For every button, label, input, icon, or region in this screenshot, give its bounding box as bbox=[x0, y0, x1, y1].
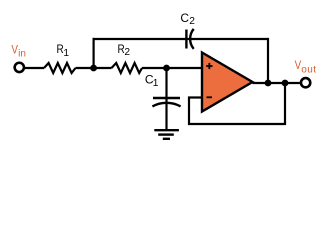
wire drop from top rail to output rail bbox=[267, 38, 269, 83]
wire riser from node A up to top rail bbox=[92, 38, 94, 68]
wire feedback loop to inverting input bbox=[189, 83, 285, 124]
junction output/feedback bbox=[282, 80, 289, 87]
svg-text:C: C bbox=[180, 11, 189, 25]
resistor R2 bbox=[112, 42, 143, 73]
junction node A (R1/R2/C2) bbox=[90, 65, 97, 72]
svg-text:in: in bbox=[18, 49, 26, 60]
svg-text:out: out bbox=[301, 64, 316, 75]
wire top rail left of C2 bbox=[93, 38, 269, 40]
label Vout bbox=[295, 58, 317, 75]
svg-text:V: V bbox=[295, 58, 302, 72]
wire input rail Vin to op-amp bbox=[25, 67, 201, 69]
wire output rail bbox=[253, 82, 300, 84]
svg-text:1: 1 bbox=[153, 78, 159, 89]
svg-text:1: 1 bbox=[63, 48, 69, 59]
capacitor C2 bbox=[180, 11, 195, 49]
svg-text:2: 2 bbox=[189, 16, 195, 27]
node Vin terminal bbox=[15, 63, 24, 72]
svg-text:2: 2 bbox=[124, 47, 130, 58]
ground bbox=[154, 130, 179, 139]
wire node B down to C1 bbox=[165, 68, 167, 130]
resistor R1 bbox=[44, 42, 76, 73]
junction output/top-rail bbox=[265, 80, 272, 87]
capacitor C1 bbox=[145, 72, 181, 106]
node Vout terminal bbox=[301, 78, 310, 87]
junction node B (R2/C1/op-amp +) bbox=[163, 65, 170, 72]
label Vin bbox=[11, 43, 25, 60]
svg-text:V: V bbox=[11, 43, 18, 57]
op-amp U1 bbox=[202, 53, 253, 112]
